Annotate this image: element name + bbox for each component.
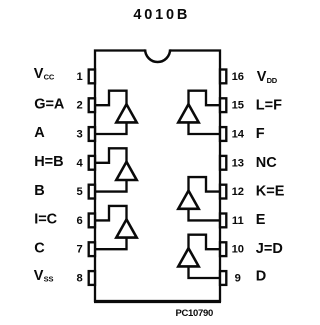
pin 13 box <box>220 156 226 170</box>
pin 8 box <box>89 271 95 285</box>
svg-text:C: C <box>34 240 45 256</box>
IC package DIP-16 outline <box>95 51 220 302</box>
buffer U6 input wire pin14 <box>189 122 221 134</box>
svg-text:10: 10 <box>232 244 244 256</box>
svg-text:K=E: K=E <box>256 184 285 200</box>
svg-text:12: 12 <box>232 186 244 198</box>
svg-text:15: 15 <box>232 100 244 112</box>
buffer U6 output wire pin15 <box>189 91 221 106</box>
svg-text:H=B: H=B <box>34 154 63 170</box>
svg-text:G=A: G=A <box>34 96 65 112</box>
buffer U4 triangle <box>178 248 198 266</box>
pin 10 box <box>220 242 226 256</box>
buffer U1 input wire pin3 <box>95 122 127 134</box>
pin 11 box <box>220 214 226 228</box>
pin 16 box <box>220 70 226 84</box>
svg-text:D: D <box>256 269 266 285</box>
pin 5 box <box>89 185 95 199</box>
buffer U4 input wire pin9 <box>189 266 221 278</box>
svg-text:8: 8 <box>76 273 82 285</box>
buffer U2 output wire pin4 <box>95 148 127 163</box>
pin 9 box <box>220 271 226 285</box>
buffer U1 triangle <box>116 104 136 122</box>
buffer U5 output wire pin12 <box>189 177 221 192</box>
svg-text:3: 3 <box>76 129 82 141</box>
buffer U3 triangle <box>116 219 136 237</box>
svg-text:NC: NC <box>256 155 277 171</box>
svg-text:16: 16 <box>232 71 244 83</box>
svg-text:A: A <box>34 125 45 141</box>
buffer U5 input wire pin11 <box>189 209 221 221</box>
pin 14 box <box>220 127 226 141</box>
svg-text:2: 2 <box>76 100 82 112</box>
svg-text:11: 11 <box>232 215 244 227</box>
svg-text:13: 13 <box>232 157 244 169</box>
buffer U1 output wire pin2 <box>95 91 127 106</box>
svg-text:9: 9 <box>235 273 241 285</box>
buffer U3 input wire pin7 <box>95 238 127 250</box>
pin 12 box <box>220 185 226 199</box>
svg-text:F: F <box>256 126 265 142</box>
pin 7 box <box>89 242 95 256</box>
buffer U6 triangle <box>178 104 198 122</box>
pin 15 box <box>220 98 226 112</box>
index notch <box>145 48 170 53</box>
pin 6 box <box>89 214 95 228</box>
svg-text:4010B: 4010B <box>133 7 190 23</box>
buffer U2 triangle <box>116 162 136 180</box>
buffer U4 output wire pin10 <box>189 235 221 250</box>
svg-text:6: 6 <box>76 215 82 227</box>
buffer U3 output wire pin6 <box>95 206 127 221</box>
svg-text:I=C: I=C <box>34 212 57 228</box>
buffer U2 input wire pin5 <box>95 180 127 192</box>
package bottom edge (thicker) <box>94 300 221 303</box>
buffer U5 triangle <box>178 191 198 209</box>
svg-text:5: 5 <box>76 186 82 198</box>
svg-text:J=D: J=D <box>256 241 283 257</box>
pin 2 box <box>89 98 95 112</box>
svg-text:E: E <box>256 212 266 228</box>
pin 3 box <box>89 127 95 141</box>
svg-text:1: 1 <box>76 71 82 83</box>
svg-text:14: 14 <box>232 129 245 141</box>
pin 1 box <box>89 70 95 84</box>
pin 4 box <box>89 156 95 170</box>
svg-text:PC10790: PC10790 <box>175 308 213 319</box>
svg-text:L=F: L=F <box>256 98 282 114</box>
svg-text:4: 4 <box>76 157 83 169</box>
svg-text:B: B <box>34 183 44 199</box>
svg-text:7: 7 <box>76 244 82 256</box>
